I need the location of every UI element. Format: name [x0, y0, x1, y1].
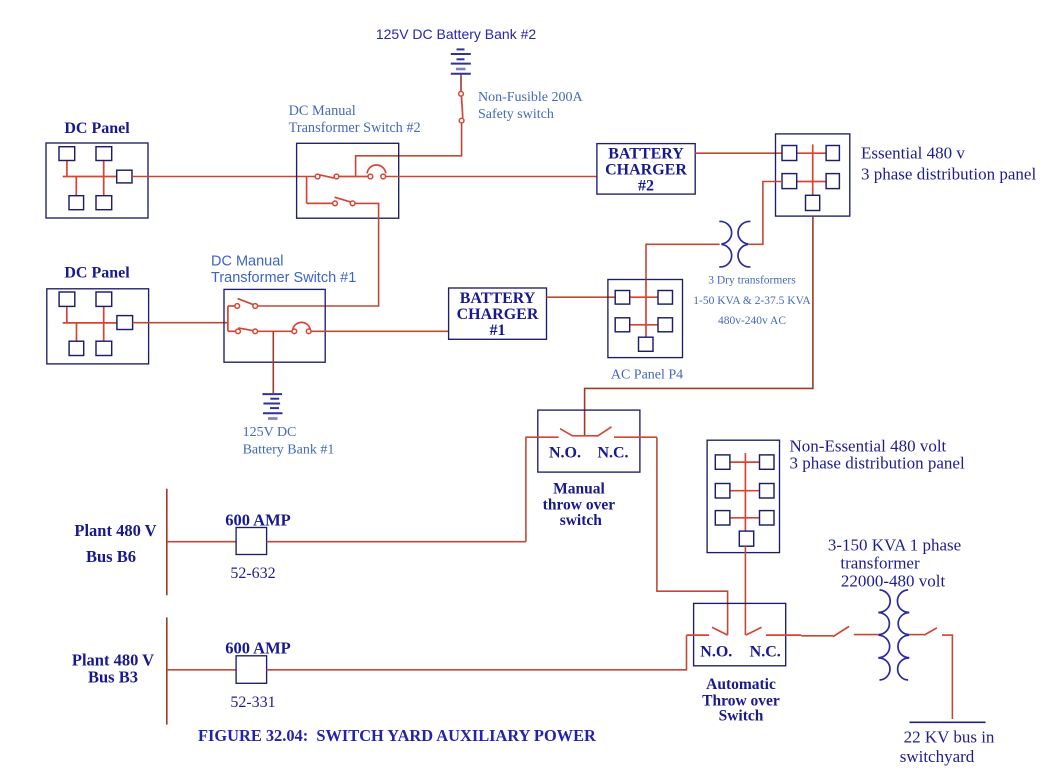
contact: switch #1 upper knife switch [235, 299, 258, 309]
wire: Bus B6 to 600 AMP breaker 52-632 [167, 541, 236, 543]
svg-text:3 phase distribution panel: 3 phase distribution panel [790, 454, 965, 473]
contact: switch #2 lower knife switch [333, 197, 355, 206]
svg-text:AC Panel P4: AC Panel P4 [611, 368, 683, 383]
svg-text:Essential 480 v: Essential 480 v [861, 144, 965, 163]
panel: AC Panel P4 box [608, 280, 683, 358]
wire: switch #1 left bracket [228, 306, 236, 331]
bus: Plant 480V Bus B6 vertical bar [166, 489, 168, 596]
wire: Non-Essential panel down to automatic switch [744, 546, 746, 635]
switch box: DC Manual Transformer Switch #1 [224, 289, 325, 362]
wire: DC Panel (top) to DC Manual Transformer Switch #2 [132, 176, 315, 178]
svg-text:3 phase distribution panel: 3 phase distribution panel [861, 165, 1036, 184]
transformer T2: 3-150 KVA 1 phase 22000-480 volt [878, 590, 909, 680]
svg-text:#1: #1 [490, 322, 506, 339]
contact: switch #2 arc contact [367, 165, 386, 179]
svg-text:Battery Bank #1: Battery Bank #1 [243, 443, 335, 458]
svg-text:22000-480 volt: 22000-480 volt [841, 572, 946, 591]
svg-text:DC Panel: DC Panel [64, 120, 130, 137]
wire: AC panel P4 up to dry transformer primary [646, 244, 720, 279]
wire: dry transformer secondary to Essential panel [749, 182, 782, 245]
svg-text:52-331: 52-331 [230, 694, 275, 711]
panel: Essential 480v 3 phase distribution panel box [776, 134, 850, 216]
svg-text:throw over: throw over [543, 496, 616, 513]
bus: Plant 480V Bus B3 vertical bar [166, 617, 168, 724]
breaker 52-331: 600 AMP fuse box [236, 656, 267, 684]
contact: switch #1 lower knife switch [236, 328, 258, 334]
svg-text:3-150 KVA 1 phase: 3-150 KVA 1 phase [828, 536, 961, 555]
svg-text:DC Panel: DC Panel [64, 265, 130, 282]
svg-text:N.C.: N.C. [597, 444, 628, 461]
battery charger U2: BATTERY CHARGER #2 [597, 144, 695, 195]
wire: AC Panel P4 internal bus [629, 280, 658, 338]
switch box: Manual throw over switch [538, 410, 640, 472]
svg-text:Safety switch: Safety switch [478, 107, 554, 122]
svg-text:N.C.: N.C. [750, 643, 781, 660]
svg-text:Plant 480 V: Plant 480 V [74, 521, 156, 540]
svg-text:Bus B3: Bus B3 [88, 667, 138, 686]
wire: charger #2 to Essential panel [695, 152, 782, 154]
svg-text:N.O.: N.O. [700, 643, 732, 660]
contact: switch #1 arc contact [292, 322, 311, 333]
svg-text:Bus B6: Bus B6 [86, 547, 136, 566]
wire: Non-Essential panel internal bus [730, 453, 760, 531]
panel: Non-Essential 480 volt panel box [707, 440, 779, 552]
svg-text:#2: #2 [638, 178, 654, 195]
svg-text:BATTERY: BATTERY [608, 146, 684, 163]
breaker squares: Non-Essential panel [715, 455, 774, 546]
switch: Non-Fusible 200A safety switch [459, 91, 464, 122]
svg-text:Manual: Manual [553, 481, 605, 498]
svg-text:switchyard: switchyard [900, 747, 975, 766]
wire: DC Panel (bottom) internal bus [63, 306, 117, 341]
contact: manual throw over switch blades [560, 427, 611, 436]
wire: switch #1 output to battery charger #1 [311, 330, 448, 332]
panel: DC Panel (top) box [46, 143, 148, 218]
breaker 52-632: 600 AMP fuse box [236, 528, 267, 555]
battery B1: 125V DC Battery Bank #1 [262, 394, 282, 418]
svg-text:Transformer Switch #2: Transformer Switch #2 [289, 120, 421, 136]
svg-text:transformer: transformer [840, 554, 920, 573]
panel: DC Panel (bottom) box [47, 289, 149, 364]
svg-text:1-50 KVA & 2-37.5 KVA: 1-50 KVA & 2-37.5 KVA [693, 295, 811, 307]
svg-text:CHARGER: CHARGER [457, 306, 539, 323]
wire: manual switch N.O. stub [526, 436, 559, 438]
wire: breaker 52-331 to automatic switch N.O. riser [267, 635, 687, 670]
svg-text:3 Dry transformers: 3 Dry transformers [708, 275, 796, 287]
wire: automatic switch N.C. stub [766, 634, 801, 636]
wire: automatic switch to disconnect blade [801, 635, 833, 637]
wire: Essential panel down to manual throw over switch [585, 216, 813, 436]
svg-text:DC Manual: DC Manual [289, 103, 356, 119]
wire: DC Panel (top) internal bus [63, 161, 117, 196]
svg-text:Non-Fusible 200A: Non-Fusible 200A [478, 90, 584, 105]
svg-text:480v-240v AC: 480v-240v AC [718, 315, 786, 327]
svg-text:125V DC Battery Bank #2: 125V DC Battery Bank #2 [376, 26, 537, 42]
breaker squares: AC Panel P4 [615, 291, 672, 352]
wire: transformer T2 secondary to disconnect [909, 634, 924, 636]
svg-text:Switch: Switch [719, 708, 764, 725]
svg-text:Automatic: Automatic [706, 676, 776, 693]
breaker squares: Essential panel [782, 146, 839, 211]
wire: switch #2 internal top run [339, 176, 368, 178]
wire: automatic switch N.O. stub [687, 634, 710, 636]
wire: battery B2 down to safety switch [460, 75, 462, 92]
svg-text:600 AMP: 600 AMP [225, 638, 291, 657]
wire: manual switch N.O. down to Bus B6 feed [525, 437, 527, 542]
wire: charger #1 to AC Panel P4 [547, 296, 616, 298]
wire: disconnect to transformer T2 primary [854, 634, 878, 636]
switch box: Automatic Throw over Switch [694, 603, 786, 665]
wire: disconnect down to 22 KV bus [942, 635, 952, 719]
svg-text:600 AMP: 600 AMP [225, 511, 291, 530]
svg-text:CHARGER: CHARGER [605, 162, 687, 179]
wire: Essential panel internal bus [797, 144, 826, 195]
wire: manual switch N.C. down and over to automatic switch [657, 437, 728, 635]
wire: DC Panel (bottom) to DC Manual Transformer Switch #1 [133, 322, 228, 324]
wire: safety switch down, left and into transformer switch #2 [356, 123, 462, 176]
contact: automatic switch N.C. blade [746, 627, 762, 635]
bus bar: 22 KV bus [910, 721, 986, 723]
svg-text:switch: switch [560, 512, 603, 529]
svg-text:52-632: 52-632 [230, 565, 275, 582]
breaker squares: DC Panel (bottom) [59, 292, 133, 356]
switch box: DC Manual Transformer Switch #2 [297, 143, 399, 218]
battery charger U1: BATTERY CHARGER #1 [449, 288, 547, 339]
wire: Bus B3 to 600 AMP breaker 52-331 [167, 669, 236, 671]
svg-text:125V DC: 125V DC [243, 425, 297, 440]
svg-text:DC Manual: DC Manual [211, 254, 284, 270]
breaker squares: DC Panel (top) [59, 147, 132, 210]
svg-text:Transformer Switch #1: Transformer Switch #1 [211, 270, 356, 286]
wire: manual switch N.C. stub [614, 436, 657, 438]
wire: switch #1 lower run [258, 330, 292, 332]
wire: breaker 52-632 to manual switch N.O. [267, 541, 526, 543]
svg-text:22 KV bus in: 22 KV bus in [904, 728, 995, 747]
wire: switch #1 tap down to battery bank #1 [272, 331, 274, 393]
wire: switch #2 internal lower branch [307, 177, 333, 204]
battery B2: 125V DC Battery Bank #2 [451, 49, 471, 73]
contact: automatic switch N.O. blade [712, 627, 728, 635]
svg-text:FIGURE 32.04: SWITCH YARD AUX: FIGURE 32.04: SWITCH YARD AUXILIARY POWE… [198, 726, 596, 745]
transformer T1: 3 dry transformers [719, 221, 750, 266]
contact: disconnect blade (right of transformer) [924, 628, 937, 635]
svg-text:BATTERY: BATTERY [460, 290, 536, 307]
wire: switch #2 output to battery charger #2 [386, 176, 597, 178]
wire: switch #2 lower output down to switch #1 row [258, 203, 379, 306]
contact: disconnect blade (left of transformer) [833, 626, 849, 636]
svg-text:N.O.: N.O. [549, 444, 581, 461]
contact: switch #2 upper-left knife switch [315, 174, 339, 179]
